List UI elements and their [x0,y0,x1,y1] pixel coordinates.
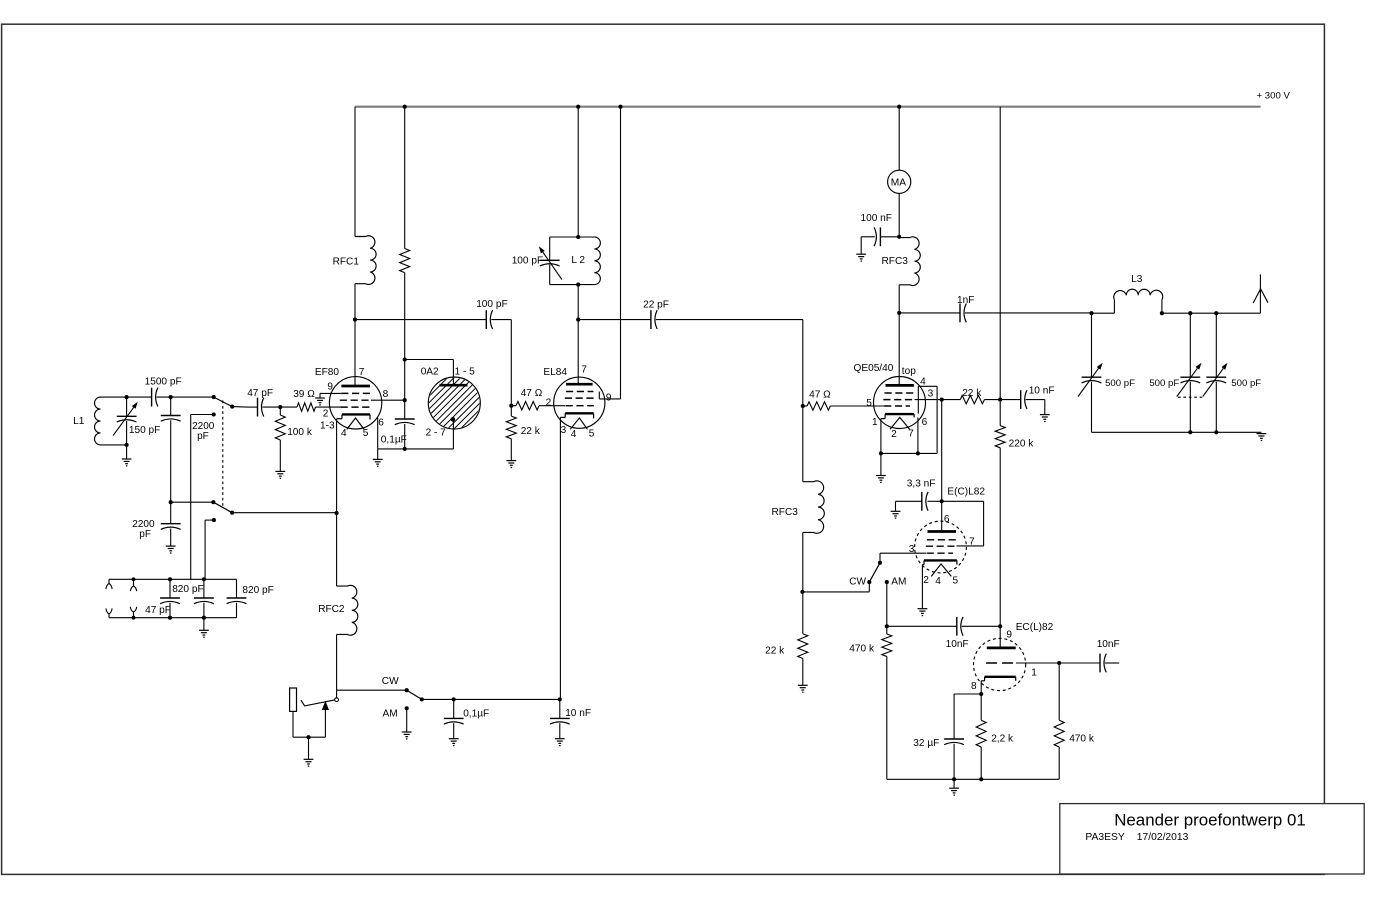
svg-text:2,2 k: 2,2 k [991,733,1014,744]
svg-text:39 Ω: 39 Ω [293,389,315,400]
svg-text:0,1µF: 0,1µF [463,708,489,719]
svg-text:5: 5 [363,428,369,439]
svg-text:22 k: 22 k [962,388,982,399]
svg-text:47 Ω: 47 Ω [809,389,831,400]
svg-text:820 pF: 820 pF [242,585,273,596]
svg-text:0,1µF: 0,1µF [381,434,407,445]
svg-text:7: 7 [359,367,365,378]
svg-text:3: 3 [928,389,934,400]
svg-text:EC(L)82: EC(L)82 [1016,622,1054,633]
svg-text:E(C)L82: E(C)L82 [947,486,985,497]
svg-text:47 Ω: 47 Ω [521,388,543,399]
svg-text:22 pF: 22 pF [643,299,669,310]
svg-text:4: 4 [341,428,347,439]
svg-text:32 µF: 32 µF [913,738,939,749]
svg-text:470 k: 470 k [1069,733,1095,744]
svg-text:47 pF: 47 pF [145,605,171,616]
svg-text:2: 2 [323,408,329,419]
svg-text:100 pF: 100 pF [476,299,507,310]
svg-text:4: 4 [920,377,926,388]
svg-text:top: top [902,366,916,377]
svg-text:MA: MA [891,177,906,188]
svg-text:AM: AM [891,577,906,588]
svg-text:100 pF: 100 pF [512,256,543,267]
svg-text:L3: L3 [1131,274,1143,285]
svg-text:L 2: L 2 [571,255,585,266]
svg-text:L1: L1 [73,416,85,427]
svg-text:1: 1 [872,417,878,428]
svg-text:22 k: 22 k [521,426,541,437]
svg-text:1nF: 1nF [957,295,974,306]
svg-text:6: 6 [944,514,950,525]
svg-text:4: 4 [935,576,941,587]
svg-text:470 k: 470 k [849,644,875,655]
svg-text:pF: pF [139,529,151,540]
svg-text:8: 8 [383,389,389,400]
svg-text:7: 7 [908,429,914,440]
svg-text:3,3 nF: 3,3 nF [907,479,936,490]
svg-text:100 k: 100 k [287,427,313,438]
svg-text:RFC2: RFC2 [318,604,345,615]
svg-text:9: 9 [1006,630,1012,641]
svg-text:PA3ESY: PA3ESY [1085,832,1124,843]
svg-text:47 pF: 47 pF [247,388,273,399]
svg-text:CW: CW [849,577,866,588]
svg-text:9: 9 [327,382,333,393]
svg-text:+ 300 V: + 300 V [1257,91,1291,102]
svg-text:EL84: EL84 [543,367,567,378]
svg-text:5: 5 [866,398,872,409]
svg-text:2 - 7: 2 - 7 [426,428,447,439]
svg-text:2: 2 [923,575,929,586]
svg-text:1500 pF: 1500 pF [145,376,182,387]
svg-text:RFC3: RFC3 [772,507,799,518]
svg-text:0A2: 0A2 [421,367,439,378]
svg-text:6: 6 [922,417,928,428]
svg-text:CW: CW [382,676,399,687]
svg-text:1: 1 [1031,668,1037,679]
svg-text:EF80: EF80 [315,367,340,378]
svg-text:RFC3: RFC3 [882,256,909,267]
svg-text:22 k: 22 k [765,645,785,656]
svg-text:10 nF: 10 nF [565,708,591,719]
svg-text:4: 4 [571,429,577,440]
svg-text:QE05/40: QE05/40 [854,363,894,374]
svg-text:8: 8 [971,681,977,692]
svg-text:7: 7 [581,365,587,376]
svg-text:220 k: 220 k [1009,439,1035,450]
svg-text:5: 5 [953,575,959,586]
svg-text:1 - 5: 1 - 5 [455,367,476,378]
svg-text:3: 3 [561,425,567,436]
svg-text:500 pF: 500 pF [1105,378,1135,389]
svg-text:10nF: 10nF [1097,639,1120,650]
svg-text:500 pF: 500 pF [1149,378,1179,389]
svg-text:100 nF: 100 nF [861,213,892,224]
svg-text:6: 6 [378,418,384,429]
svg-text:Neander proefontwerp 01: Neander proefontwerp 01 [1114,811,1306,830]
svg-text:500 pF: 500 pF [1231,378,1261,389]
svg-text:9: 9 [606,393,612,404]
svg-text:150 pF: 150 pF [129,425,160,436]
svg-text:10nF: 10nF [946,639,969,650]
svg-text:2: 2 [891,429,897,440]
svg-text:2: 2 [546,397,552,408]
svg-text:5: 5 [589,429,595,440]
svg-text:1-3: 1-3 [320,420,335,431]
svg-text:820 pF: 820 pF [172,584,203,595]
svg-text:7: 7 [969,536,975,547]
svg-text:AM: AM [383,709,398,720]
svg-text:RFC1: RFC1 [333,256,360,267]
svg-text:3: 3 [909,544,915,555]
svg-text:17/02/2013: 17/02/2013 [1137,832,1189,843]
svg-text:pF: pF [197,431,209,442]
svg-text:10 nF: 10 nF [1029,385,1055,396]
